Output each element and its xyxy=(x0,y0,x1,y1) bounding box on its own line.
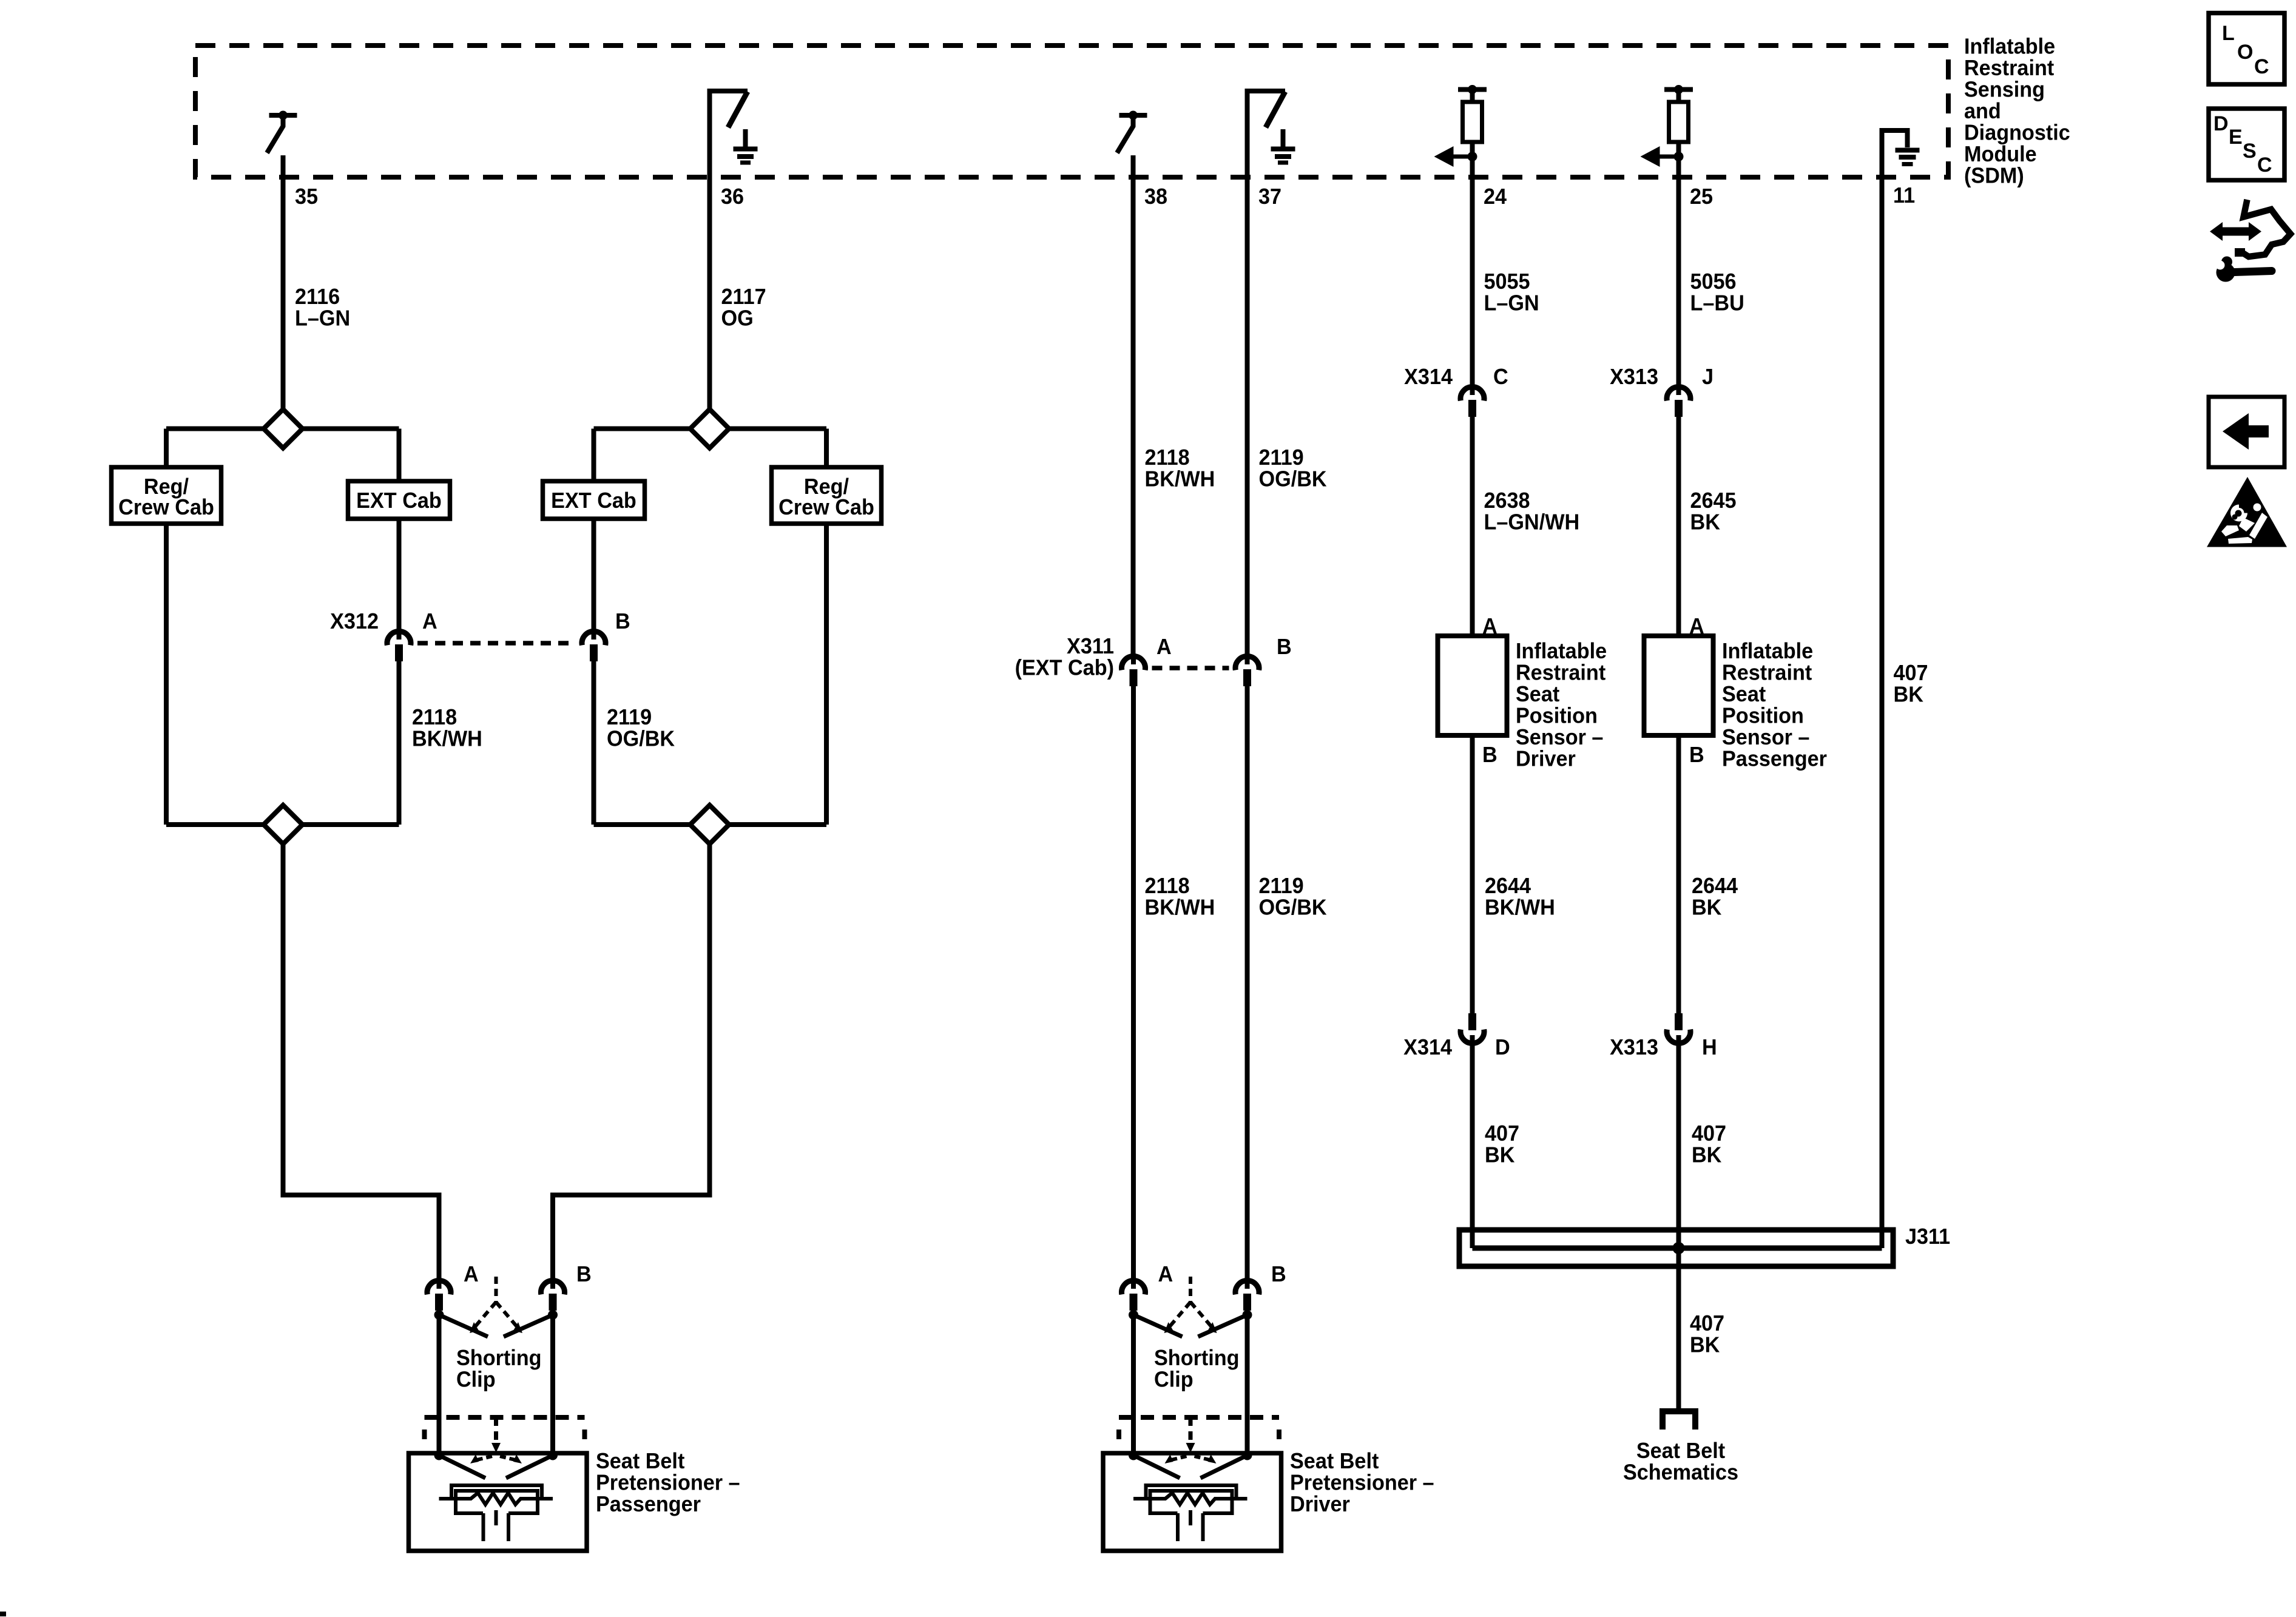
svg-text:X313: X313 xyxy=(1610,1035,1658,1059)
svg-text:2118: 2118 xyxy=(1145,874,1190,898)
svg-text:OG/BK: OG/BK xyxy=(1258,896,1327,920)
svg-text:X313: X313 xyxy=(1610,365,1658,389)
svg-text:Driver: Driver xyxy=(1290,1492,1350,1516)
svg-text:J311: J311 xyxy=(1905,1224,1950,1249)
svg-text:BK/WH: BK/WH xyxy=(412,727,482,751)
svg-text:B: B xyxy=(1271,1262,1286,1286)
svg-text:37: 37 xyxy=(1258,184,1281,209)
svg-text:Seat: Seat xyxy=(1722,682,1766,706)
svg-text:407: 407 xyxy=(1690,1311,1724,1335)
svg-text:2118: 2118 xyxy=(1145,445,1190,470)
svg-text:Seat Belt: Seat Belt xyxy=(596,1449,685,1473)
svg-text:Seat Belt: Seat Belt xyxy=(1636,1439,1726,1463)
svg-text:Seat Belt: Seat Belt xyxy=(1290,1449,1379,1473)
svg-text:BK/WH: BK/WH xyxy=(1145,467,1215,491)
svg-text:25: 25 xyxy=(1690,184,1713,209)
svg-text:407: 407 xyxy=(1485,1121,1519,1146)
svg-text:Sensor –: Sensor – xyxy=(1722,725,1809,749)
svg-text:Position: Position xyxy=(1722,704,1804,728)
svg-text:Schematics: Schematics xyxy=(1623,1460,1738,1485)
svg-text:L–GN: L–GN xyxy=(295,306,350,331)
svg-text:2644: 2644 xyxy=(1692,874,1738,898)
svg-text:A: A xyxy=(422,609,437,633)
svg-text:D: D xyxy=(2213,112,2229,135)
svg-text:2645: 2645 xyxy=(1690,488,1737,513)
svg-text:C: C xyxy=(2257,154,2272,177)
svg-text:Sensor –: Sensor – xyxy=(1516,725,1603,749)
svg-text:OG: OG xyxy=(721,306,753,331)
svg-text:D: D xyxy=(1495,1035,1510,1059)
svg-text:E: E xyxy=(2229,126,2243,149)
svg-text:Sensing: Sensing xyxy=(1964,78,2045,102)
svg-text:BK: BK xyxy=(1485,1143,1515,1167)
svg-text:11: 11 xyxy=(1893,183,1915,208)
svg-text:2119: 2119 xyxy=(607,705,652,729)
svg-text:Pretensioner –: Pretensioner – xyxy=(596,1471,740,1495)
svg-text:B: B xyxy=(1482,743,1497,767)
svg-text:Crew Cab: Crew Cab xyxy=(778,495,874,519)
svg-text:Module: Module xyxy=(1964,142,2037,166)
svg-text:Pretensioner –: Pretensioner – xyxy=(1290,1471,1434,1495)
svg-text:B: B xyxy=(1277,635,1292,659)
svg-text:EXT Cab: EXT Cab xyxy=(356,488,442,513)
svg-text:C: C xyxy=(1493,365,1508,389)
svg-text:and: and xyxy=(1964,99,2001,123)
svg-text:B: B xyxy=(615,609,630,633)
svg-text:L: L xyxy=(2222,22,2235,45)
svg-text:B: B xyxy=(1689,743,1704,767)
svg-text:407: 407 xyxy=(1894,661,1928,685)
svg-text:2638: 2638 xyxy=(1484,488,1530,513)
svg-text:BK: BK xyxy=(1690,1333,1720,1357)
svg-text:A: A xyxy=(1689,614,1704,638)
svg-text:A: A xyxy=(1158,1262,1173,1286)
svg-text:BK: BK xyxy=(1894,683,1924,707)
svg-text:Shorting: Shorting xyxy=(456,1346,542,1370)
svg-text:Clip: Clip xyxy=(456,1368,496,1392)
svg-text:O: O xyxy=(2237,41,2253,64)
svg-text:Inflatable: Inflatable xyxy=(1964,35,2055,59)
svg-text:L–BU: L–BU xyxy=(1690,291,1744,316)
svg-text:BK/WH: BK/WH xyxy=(1485,896,1555,920)
svg-text:BK: BK xyxy=(1692,896,1722,920)
svg-text:OG/BK: OG/BK xyxy=(607,727,675,751)
svg-text:Clip: Clip xyxy=(1154,1368,1194,1392)
svg-text:2118: 2118 xyxy=(412,705,457,729)
svg-text:BK: BK xyxy=(1692,1143,1722,1167)
svg-text:Driver: Driver xyxy=(1516,747,1576,771)
svg-text:Seat: Seat xyxy=(1516,682,1560,706)
svg-text:Shorting: Shorting xyxy=(1154,1346,1240,1370)
svg-text:L–GN: L–GN xyxy=(1484,291,1539,316)
svg-text:B: B xyxy=(576,1262,592,1286)
svg-text:Position: Position xyxy=(1516,704,1598,728)
svg-text:X312: X312 xyxy=(330,609,379,633)
svg-text:BK/WH: BK/WH xyxy=(1145,896,1215,920)
svg-text:36: 36 xyxy=(721,184,744,209)
svg-text:X314: X314 xyxy=(1403,1035,1452,1059)
svg-text:5056: 5056 xyxy=(1690,269,1737,294)
svg-text:24: 24 xyxy=(1484,184,1507,209)
svg-text:H: H xyxy=(1702,1035,1717,1059)
svg-text:2644: 2644 xyxy=(1485,874,1531,898)
svg-text:J: J xyxy=(1702,365,1714,389)
svg-text:C: C xyxy=(2254,55,2269,78)
svg-text:S: S xyxy=(2243,140,2257,163)
svg-text:Inflatable: Inflatable xyxy=(1722,639,1813,663)
svg-text:407: 407 xyxy=(1692,1121,1726,1146)
svg-text:Restraint: Restraint xyxy=(1722,661,1812,685)
svg-text:Passenger: Passenger xyxy=(1722,747,1827,771)
svg-text:Restraint: Restraint xyxy=(1516,661,1606,685)
svg-text:BK: BK xyxy=(1690,510,1721,535)
svg-text:5055: 5055 xyxy=(1484,269,1530,294)
svg-text:EXT Cab: EXT Cab xyxy=(551,488,636,513)
svg-text:(EXT Cab): (EXT Cab) xyxy=(1015,656,1114,680)
svg-text:Diagnostic: Diagnostic xyxy=(1964,121,2070,145)
svg-text:L–GN/WH: L–GN/WH xyxy=(1484,510,1579,535)
svg-text:X311: X311 xyxy=(1067,634,1114,658)
svg-text:38: 38 xyxy=(1144,184,1167,209)
svg-text:A: A xyxy=(464,1262,479,1286)
svg-text:2116: 2116 xyxy=(295,285,340,309)
svg-text:OG/BK: OG/BK xyxy=(1258,467,1327,491)
svg-text:A: A xyxy=(1482,614,1497,638)
svg-text:(SDM): (SDM) xyxy=(1964,164,2024,188)
svg-text:Passenger: Passenger xyxy=(596,1492,701,1516)
svg-text:35: 35 xyxy=(295,184,318,209)
svg-text:2117: 2117 xyxy=(721,285,766,309)
svg-text:Crew Cab: Crew Cab xyxy=(118,495,214,519)
svg-text:2119: 2119 xyxy=(1258,874,1303,898)
svg-text:Restraint: Restraint xyxy=(1964,56,2055,80)
svg-text:A: A xyxy=(1156,635,1172,659)
svg-text:2119: 2119 xyxy=(1258,445,1303,470)
svg-text:Inflatable: Inflatable xyxy=(1516,639,1607,663)
svg-text:X314: X314 xyxy=(1404,365,1453,389)
